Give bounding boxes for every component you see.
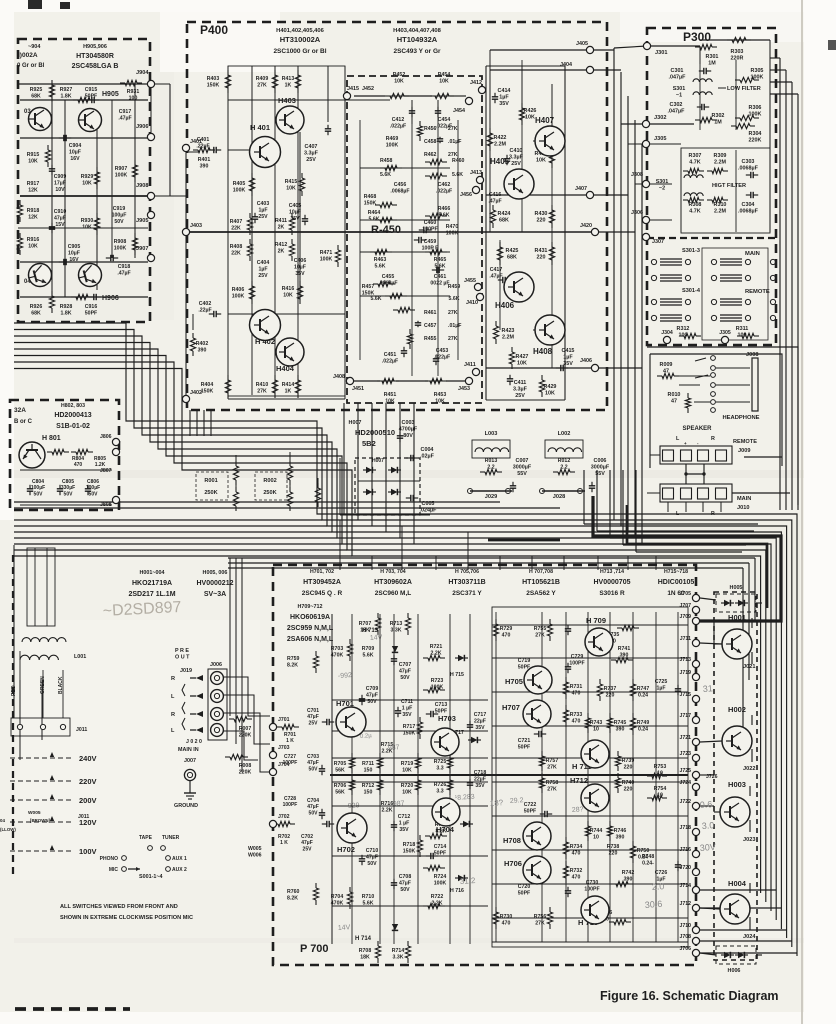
svg-text:AUX 2: AUX 2 bbox=[172, 867, 187, 873]
svg-text:P400: P400 bbox=[200, 23, 228, 37]
svg-text:ALL SWITCHES VIEWED FROM F: ALL SWITCHES VIEWED FROM FRONT AND bbox=[60, 904, 178, 910]
svg-text:J907: J907 bbox=[136, 246, 148, 252]
svg-text:R75727K: R75727K bbox=[546, 758, 559, 770]
svg-text:R7480.24-: R7480.24- bbox=[642, 854, 655, 866]
svg-text:J709: J709 bbox=[679, 614, 691, 620]
svg-text:J719: J719 bbox=[679, 670, 691, 676]
svg-text:C91047µF15V: C91047µF15V bbox=[54, 209, 67, 228]
svg-text:L: L bbox=[171, 694, 175, 700]
svg-text:C71722µF35V: C71722µF35V bbox=[474, 712, 487, 731]
svg-text:S001-1~4: S001-1~4 bbox=[139, 874, 163, 880]
svg-text:J301: J301 bbox=[655, 50, 667, 56]
svg-text:R91712K: R91712K bbox=[27, 181, 40, 193]
svg-text:R404150K: R404150K bbox=[201, 382, 214, 394]
svg-text:J725: J725 bbox=[679, 768, 691, 774]
svg-text:B or C: B or C bbox=[14, 419, 33, 425]
svg-text:S301-3: S301-3 bbox=[682, 248, 700, 254]
svg-text:30.6: 30.6 bbox=[644, 899, 662, 910]
svg-text:SHOWN IN EXTREME CLOCKWISE: SHOWN IN EXTREME CLOCKWISE POSITION MIC bbox=[60, 915, 193, 921]
svg-text:R41610K: R41610K bbox=[282, 286, 295, 298]
svg-text:MAIN: MAIN bbox=[737, 496, 751, 502]
svg-text:R9281.8K: R9281.8K bbox=[60, 304, 73, 316]
svg-text:J904: J904 bbox=[136, 70, 149, 76]
svg-text:R001: R001 bbox=[204, 478, 217, 484]
svg-text:HT304580R: HT304580R bbox=[76, 53, 114, 60]
svg-text:R91610K: R91610K bbox=[27, 237, 40, 249]
svg-text:J707: J707 bbox=[679, 603, 691, 609]
svg-text:04: 04 bbox=[0, 818, 5, 823]
svg-text:S301-4: S301-4 bbox=[682, 288, 701, 294]
svg-text:J009: J009 bbox=[738, 448, 750, 454]
svg-text:J455: J455 bbox=[464, 278, 476, 284]
svg-text:H 401: H 401 bbox=[250, 123, 270, 132]
svg-text:H 709: H 709 bbox=[586, 616, 606, 625]
svg-text:H 713: H 713 bbox=[362, 628, 379, 634]
svg-text:R42710K: R42710K bbox=[516, 354, 529, 367]
svg-text:J007: J007 bbox=[184, 758, 196, 764]
svg-text:H403,404,407,408: H403,404,407,408 bbox=[393, 28, 441, 34]
svg-text:R456: R456 bbox=[424, 126, 437, 132]
svg-text:J415: J415 bbox=[347, 86, 359, 92]
svg-text:2SC493 Y or Gr: 2SC493 Y or Gr bbox=[393, 48, 441, 55]
svg-text:240V: 240V bbox=[79, 754, 97, 763]
svg-text:HV0000705: HV0000705 bbox=[594, 579, 631, 586]
svg-text:R7212.2K: R7212.2K bbox=[430, 644, 443, 656]
svg-text:R92910K: R92910K bbox=[81, 174, 94, 186]
svg-text:I)002A: I)002A bbox=[18, 52, 38, 59]
svg-text:+: + bbox=[684, 441, 687, 446]
svg-text:J906: J906 bbox=[136, 124, 148, 130]
svg-text:H703: H703 bbox=[438, 714, 456, 723]
svg-text:.01µF: .01µF bbox=[448, 323, 461, 329]
svg-text:14V: 14V bbox=[338, 924, 351, 932]
svg-text:R: R bbox=[711, 436, 715, 442]
svg-text:J307: J307 bbox=[652, 239, 664, 245]
svg-text:28?: 28? bbox=[572, 806, 584, 814]
svg-text:HD2000413: HD2000413 bbox=[54, 412, 91, 419]
svg-text:C7251µF: C7251µF bbox=[655, 679, 668, 691]
svg-text:TAPE: TAPE bbox=[139, 835, 153, 841]
svg-text:R9271.8K: R9271.8K bbox=[60, 87, 73, 99]
svg-text:R45410K: R45410K bbox=[438, 72, 451, 84]
svg-text:27K: 27K bbox=[448, 336, 458, 342]
svg-text:R008220K: R008220K bbox=[239, 763, 252, 775]
svg-text:14V: 14V bbox=[370, 634, 383, 642]
svg-text:H 707,708: H 707,708 bbox=[529, 569, 553, 575]
svg-text:TUNER: TUNER bbox=[162, 835, 180, 841]
svg-text:HDIC00105: HDIC00105 bbox=[658, 579, 695, 586]
svg-text:C918.47µF: C918.47µF bbox=[117, 264, 130, 276]
svg-text:H705: H705 bbox=[505, 677, 523, 686]
svg-text:R40722K: R40722K bbox=[230, 219, 243, 231]
svg-text:J407: J407 bbox=[575, 186, 587, 192]
svg-text:C70247µF25V: C70247µF25V bbox=[301, 834, 313, 852]
svg-text:R42468K: R42468K bbox=[498, 211, 511, 224]
svg-text:R4232.2M: R4232.2M bbox=[502, 328, 515, 341]
svg-text:C727100PF: C727100PF bbox=[283, 754, 298, 766]
svg-text:J413: J413 bbox=[470, 170, 482, 176]
svg-text:J023: J023 bbox=[743, 837, 755, 843]
svg-text:H713 ,714: H713 ,714 bbox=[600, 569, 624, 575]
svg-text:J305: J305 bbox=[719, 330, 731, 336]
svg-text:HKO21719A: HKO21719A bbox=[132, 580, 172, 587]
svg-text:R: R bbox=[171, 676, 175, 682]
svg-text:C730100PF: C730100PF bbox=[584, 880, 599, 892]
svg-text:C71350PF: C71350PF bbox=[435, 702, 448, 714]
svg-text:R8051.2K: R8051.2K bbox=[94, 456, 106, 468]
svg-text:987: 987 bbox=[393, 800, 405, 808]
svg-text:C70447µF50V: C70447µF50V bbox=[307, 798, 319, 816]
svg-text:C004.02µF: C004.02µF bbox=[420, 447, 435, 460]
svg-text:29.2: 29.2 bbox=[510, 797, 524, 805]
svg-text:R462: R462 bbox=[424, 152, 437, 158]
svg-text:R458: R458 bbox=[380, 158, 393, 164]
svg-text:R7105.6K: R7105.6K bbox=[362, 894, 375, 906]
svg-text:H405: H405 bbox=[490, 157, 510, 166]
svg-text:J715: J715 bbox=[679, 692, 691, 698]
svg-text:H005: H005 bbox=[730, 585, 743, 591]
svg-text:J304: J304 bbox=[661, 330, 673, 336]
svg-text:250K: 250K bbox=[204, 490, 217, 496]
svg-text:P300: P300 bbox=[683, 30, 711, 44]
svg-text:J720: J720 bbox=[679, 865, 691, 871]
svg-text:H712: H712 bbox=[570, 776, 588, 785]
svg-text:R457150K: R457150K bbox=[362, 284, 375, 296]
svg-text:J402: J402 bbox=[190, 390, 202, 396]
svg-text:J411: J411 bbox=[464, 362, 476, 368]
svg-text:J908: J908 bbox=[136, 183, 148, 189]
svg-text:J723: J723 bbox=[679, 751, 691, 757]
svg-text:R93010K: R93010K bbox=[81, 218, 94, 230]
svg-text:R4655.6K: R4655.6K bbox=[434, 257, 447, 269]
svg-text:J721: J721 bbox=[679, 735, 691, 741]
svg-text:100V: 100V bbox=[79, 847, 97, 856]
svg-text:R75527K: R75527K bbox=[534, 626, 547, 638]
svg-text:R40822K: R40822K bbox=[230, 244, 243, 256]
svg-text:R471100K: R471100K bbox=[320, 250, 333, 262]
svg-text:27K: 27K bbox=[448, 310, 458, 316]
svg-text:J703: J703 bbox=[278, 745, 290, 751]
svg-text:HT310002A: HT310002A bbox=[280, 35, 321, 44]
svg-text:R405100K: R405100K bbox=[233, 181, 246, 193]
svg-text:R470100K: R470100K bbox=[446, 224, 459, 236]
svg-text:R91510K: R91510K bbox=[27, 152, 40, 164]
svg-text:18?: 18? bbox=[490, 798, 504, 808]
svg-text:C90410µF16V: C90410µF16V bbox=[69, 143, 82, 162]
svg-text:C70847µF50V: C70847µF50V bbox=[399, 874, 412, 893]
svg-text:R92568K: R92568K bbox=[30, 87, 43, 99]
svg-text:J010: J010 bbox=[737, 505, 749, 511]
svg-text:J454: J454 bbox=[453, 108, 465, 114]
svg-text:J905: J905 bbox=[136, 218, 148, 224]
svg-text:J008: J008 bbox=[746, 352, 758, 358]
svg-text:P 700: P 700 bbox=[300, 943, 329, 955]
svg-text:H406: H406 bbox=[495, 301, 515, 310]
svg-text:HT309452A: HT309452A bbox=[303, 579, 341, 586]
svg-text:R461: R461 bbox=[424, 310, 437, 316]
svg-text:2SA606 N,M,L: 2SA606 N,M,L bbox=[287, 636, 334, 643]
svg-text:J807: J807 bbox=[100, 468, 112, 474]
svg-text:2SC371 Y: 2SC371 Y bbox=[452, 590, 482, 597]
svg-text:J006: J006 bbox=[210, 662, 222, 668]
svg-text:[BROWN]: [BROWN] bbox=[30, 818, 51, 823]
svg-text:R7162.2K: R7162.2K bbox=[381, 801, 394, 813]
svg-text:R7608.2K: R7608.2K bbox=[287, 889, 300, 901]
svg-text:2SC1000 Gr or Bl: 2SC1000 Gr or Bl bbox=[273, 48, 326, 55]
svg-text:C70347µF50V: C70347µF50V bbox=[307, 754, 319, 772]
svg-text:J022: J022 bbox=[743, 766, 755, 772]
svg-text:R41027K: R41027K bbox=[256, 382, 269, 394]
svg-text:J722: J722 bbox=[679, 799, 691, 805]
svg-text:5B2: 5B2 bbox=[362, 439, 376, 448]
svg-text:R704470K: R704470K bbox=[331, 894, 344, 906]
svg-text:R406100K: R406100K bbox=[232, 287, 245, 299]
svg-text:MAIN: MAIN bbox=[745, 251, 760, 257]
svg-text:J712: J712 bbox=[679, 901, 691, 907]
svg-text:H006: H006 bbox=[728, 968, 741, 974]
svg-text:R42910K: R42910K bbox=[544, 384, 557, 397]
svg-text:R70656K: R70656K bbox=[334, 783, 347, 795]
svg-text:R468150K: R468150K bbox=[364, 194, 377, 206]
svg-text:H001~004: H001~004 bbox=[139, 570, 164, 576]
svg-text:LOW FILTER: LOW FILTER bbox=[727, 86, 761, 92]
svg-text:H709~712: H709~712 bbox=[297, 604, 322, 610]
svg-text:H 714: H 714 bbox=[355, 936, 372, 942]
svg-text:R42568K: R42568K bbox=[506, 248, 519, 261]
svg-text:C71047µF50V: C71047µF50V bbox=[366, 848, 379, 867]
svg-text:R469100K: R469100K bbox=[386, 136, 399, 148]
svg-text:C451.022µF: C451.022µF bbox=[382, 352, 398, 364]
svg-text:-992: -992 bbox=[338, 672, 353, 680]
svg-text:C4041µF25V: C4041µF25V bbox=[257, 260, 270, 279]
svg-text:C70147µF25V: C70147µF25V bbox=[307, 708, 319, 726]
svg-text:R304220K: R304220K bbox=[749, 131, 762, 144]
svg-text:J420: J420 bbox=[580, 223, 592, 229]
svg-text:H401,402,405,406: H401,402,405,406 bbox=[276, 28, 324, 34]
svg-text:R303220R: R303220R bbox=[731, 49, 744, 62]
svg-text:220V: 220V bbox=[79, 777, 97, 786]
svg-text:H 716: H 716 bbox=[450, 888, 464, 894]
svg-text:2SA562 Y: 2SA562 Y bbox=[526, 590, 556, 597]
svg-text:J718: J718 bbox=[679, 825, 691, 831]
svg-text:S1B-01-02: S1B-01-02 bbox=[56, 423, 90, 430]
svg-text:2SD217 1L.1M: 2SD217 1L.1M bbox=[128, 591, 175, 598]
svg-text:J308: J308 bbox=[631, 172, 643, 178]
svg-text:J302: J302 bbox=[654, 115, 666, 121]
svg-text:PHONO: PHONO bbox=[100, 856, 118, 862]
svg-text:C459100P F: C459100P F bbox=[422, 239, 439, 251]
svg-text:C728100PF: C728100PF bbox=[283, 796, 298, 808]
svg-text:J024: J024 bbox=[743, 934, 756, 940]
svg-text:0.6: 0.6 bbox=[699, 799, 712, 810]
svg-text:J019: J019 bbox=[180, 668, 192, 674]
svg-text:Figure 16. Schematic Diagram: Figure 16. Schematic Diagram bbox=[600, 989, 779, 1003]
svg-text:R3102.2M: R3102.2M bbox=[714, 202, 727, 215]
svg-text:J404: J404 bbox=[560, 62, 572, 68]
svg-text:J405: J405 bbox=[576, 41, 588, 47]
svg-text:HT303711B: HT303711B bbox=[448, 579, 485, 586]
svg-text:J028: J028 bbox=[553, 494, 565, 500]
svg-text:R4635.6K: R4635.6K bbox=[374, 257, 387, 269]
svg-text:J701: J701 bbox=[278, 717, 290, 723]
svg-text:H 715: H 715 bbox=[450, 672, 464, 678]
svg-text:C7121 µF35V: C7121 µF35V bbox=[398, 814, 411, 833]
svg-text:R723100K: R723100K bbox=[431, 678, 444, 690]
svg-text:C417.47µF: C417.47µF bbox=[489, 267, 502, 279]
svg-text:2SC458LGA B: 2SC458LGA B bbox=[72, 63, 119, 70]
svg-text:R455: R455 bbox=[424, 336, 437, 342]
svg-text:R-450: R-450 bbox=[371, 224, 401, 236]
svg-text:R7222.2K: R7222.2K bbox=[431, 894, 444, 906]
svg-text:J711: J711 bbox=[680, 636, 691, 642]
svg-text:MAIN IN: MAIN IN bbox=[178, 747, 199, 753]
svg-text:2SC960 M,L: 2SC960 M,L bbox=[375, 590, 412, 597]
svg-text:SV~3A: SV~3A bbox=[204, 591, 226, 598]
svg-text:GROUND: GROUND bbox=[174, 803, 198, 809]
svg-text:R7095.6K: R7095.6K bbox=[362, 646, 375, 658]
svg-text:R3092.2M: R3092.2M bbox=[714, 153, 727, 166]
svg-text:J717: J717 bbox=[679, 713, 691, 719]
svg-text:C72050PF: C72050PF bbox=[518, 884, 531, 896]
svg-text:2SC959 N,M,L: 2SC959 N,M,L bbox=[287, 625, 334, 632]
svg-text:R7143.3K: R7143.3K bbox=[392, 948, 405, 960]
svg-text:H007: H007 bbox=[349, 420, 362, 426]
svg-text:J410: J410 bbox=[466, 300, 478, 306]
svg-text:R7133.3K: R7133.3K bbox=[390, 621, 403, 633]
svg-text:HT309602A: HT309602A bbox=[374, 579, 412, 586]
svg-text:W005W006: W005W006 bbox=[248, 846, 262, 858]
svg-text:J403: J403 bbox=[190, 223, 202, 229]
svg-text:HEADPHONE: HEADPHONE bbox=[722, 415, 759, 421]
svg-text:H004: H004 bbox=[728, 879, 747, 888]
svg-text:L003: L003 bbox=[485, 431, 498, 437]
svg-text:R7598.2K: R7598.2K bbox=[287, 656, 300, 668]
svg-text:32A: 32A bbox=[14, 407, 26, 414]
svg-text:C71822µF35V: C71822µF35V bbox=[474, 770, 487, 789]
svg-text:R92668K: R92668K bbox=[30, 304, 43, 316]
svg-text:.01µF: .01µF bbox=[448, 139, 461, 145]
svg-text:C90917µF10V: C90917µF10V bbox=[54, 174, 67, 193]
svg-text:~904: ~904 bbox=[28, 44, 41, 50]
svg-text:L: L bbox=[171, 728, 175, 734]
svg-text:R75627K: R75627K bbox=[534, 914, 547, 926]
svg-text:C71950PF: C71950PF bbox=[518, 658, 531, 670]
svg-text:H715~718: H715~718 bbox=[664, 569, 688, 575]
svg-text:C71450PF: C71450PF bbox=[434, 844, 447, 856]
svg-text:J011: J011 bbox=[78, 814, 89, 820]
svg-text:R4222.2M: R4222.2M bbox=[494, 135, 507, 148]
svg-text:R908100K: R908100K bbox=[114, 239, 127, 251]
svg-text:H802, 803: H802, 803 bbox=[61, 403, 85, 409]
svg-text:R3074.7K: R3074.7K bbox=[689, 153, 702, 166]
svg-text:R: R bbox=[171, 712, 175, 718]
svg-text:J 0 2 0: J 0 2 0 bbox=[186, 739, 202, 745]
svg-text:2SC945 Q . R: 2SC945 Q . R bbox=[302, 590, 343, 597]
svg-text:C917.47µF: C917.47µF bbox=[118, 109, 131, 121]
svg-text:C4151µF35V: C4151µF35V bbox=[562, 348, 575, 367]
svg-text:C90510µF16V: C90510µF16V bbox=[68, 244, 81, 263]
svg-text:J029: J029 bbox=[485, 494, 497, 500]
svg-text:AUX 1: AUX 1 bbox=[172, 856, 187, 862]
svg-text:H706: H706 bbox=[504, 859, 522, 868]
svg-text:31: 31 bbox=[702, 683, 713, 694]
svg-text:R724100K: R724100K bbox=[434, 874, 447, 886]
svg-text:P R EO U T: P R EO U T bbox=[175, 648, 190, 661]
svg-text:250K: 250K bbox=[263, 490, 276, 496]
svg-text:R91812K: R91812K bbox=[27, 208, 40, 220]
svg-text:C4141µF35V: C4141µF35V bbox=[498, 88, 511, 107]
svg-text:C457: C457 bbox=[424, 323, 437, 329]
svg-text:J306: J306 bbox=[631, 210, 643, 216]
svg-text:27K: 27K bbox=[448, 126, 458, 132]
svg-text:H905: H905 bbox=[102, 91, 119, 98]
svg-text:R72010K: R72010K bbox=[401, 783, 414, 795]
svg-text:0 Gr or Bl: 0 Gr or Bl bbox=[17, 63, 45, 69]
svg-text:0.2µ: 0.2µ bbox=[360, 733, 373, 740]
svg-text:C7111 µF35V: C7111 µF35V bbox=[401, 699, 413, 718]
svg-text:H 705,706: H 705,706 bbox=[455, 569, 479, 575]
svg-text:J806: J806 bbox=[100, 434, 112, 440]
svg-text:C401.22µF: C401.22µF bbox=[196, 137, 209, 149]
svg-text:C72250PF: C72250PF bbox=[524, 802, 537, 814]
svg-text:¹8.283: ¹8.283 bbox=[455, 794, 475, 802]
svg-text:H005, 006: H005, 006 bbox=[203, 570, 228, 576]
svg-text:R907100K: R907100K bbox=[115, 166, 128, 178]
svg-text:J702: J702 bbox=[278, 814, 290, 820]
svg-text:C402.22µF: C402.22µF bbox=[198, 301, 211, 313]
svg-text:REMOTE: REMOTE bbox=[733, 439, 757, 445]
svg-text:J412: J412 bbox=[470, 80, 482, 86]
svg-text:J011: J011 bbox=[76, 727, 87, 733]
svg-text:3.0: 3.0 bbox=[701, 820, 714, 831]
svg-text:H003: H003 bbox=[728, 780, 746, 789]
svg-text:R71910K: R71910K bbox=[401, 761, 414, 773]
svg-text:J305: J305 bbox=[654, 136, 666, 142]
svg-text:H708: H708 bbox=[503, 836, 521, 845]
svg-text:R007220K: R007220K bbox=[239, 726, 252, 738]
svg-text:HT104932A: HT104932A bbox=[397, 35, 438, 44]
svg-text:R306100K: R306100K bbox=[749, 105, 762, 118]
svg-text:S3016 R: S3016 R bbox=[599, 590, 625, 597]
svg-text:30V: 30V bbox=[699, 842, 716, 853]
svg-text:H905,906: H905,906 bbox=[83, 44, 107, 50]
svg-text:R45110K: R45110K bbox=[384, 392, 397, 404]
svg-text:C70947µF50V: C70947µF50V bbox=[366, 686, 379, 705]
svg-text:5.6K: 5.6K bbox=[380, 172, 391, 178]
svg-text:C458: C458 bbox=[424, 139, 437, 145]
svg-text:5.6K: 5.6K bbox=[371, 296, 382, 302]
svg-text:C729100PF: C729100PF bbox=[569, 654, 584, 666]
svg-text:R403150K: R403150K bbox=[207, 76, 220, 88]
svg-text:J705: J705 bbox=[679, 591, 691, 597]
svg-text:2.0: 2.0 bbox=[651, 881, 664, 892]
svg-text:H 801: H 801 bbox=[42, 435, 61, 442]
svg-text:L001: L001 bbox=[74, 654, 86, 660]
svg-text:REMOTE: REMOTE bbox=[745, 289, 770, 295]
svg-text:J408: J408 bbox=[333, 374, 345, 380]
svg-text:R703470K: R703470K bbox=[331, 646, 344, 658]
svg-text:J453: J453 bbox=[458, 386, 470, 392]
svg-text:HD2000510: HD2000510 bbox=[355, 428, 395, 437]
svg-text:J710: J710 bbox=[679, 923, 691, 929]
svg-text:C412.022µF: C412.022µF bbox=[390, 117, 406, 129]
svg-text:R717150K: R717150K bbox=[403, 724, 416, 736]
svg-text:R002: R002 bbox=[263, 478, 276, 484]
svg-text:R718150K: R718150K bbox=[403, 842, 416, 854]
svg-text:R70556K: R70556K bbox=[334, 761, 347, 773]
svg-text:R40927K: R40927K bbox=[256, 76, 269, 88]
svg-text:H007: H007 bbox=[372, 458, 384, 464]
